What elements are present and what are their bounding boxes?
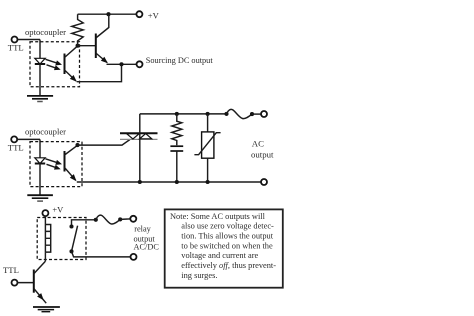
node: resistor/collector/base junction (76, 44, 80, 48)
ground (top circuit) (27, 96, 53, 102)
wire AC bottom rail (77, 181, 262, 183)
node at DC output (119, 62, 123, 66)
node bottom rail / varistor (206, 180, 210, 184)
svg-text:voltage and current are: voltage and current are (181, 251, 258, 260)
terminal relay output bottom (131, 254, 137, 260)
wire emitter to output terminal (107, 63, 137, 65)
svg-text:Sourcing DC output: Sourcing DC output (146, 56, 214, 65)
terminal TTL input (middle) (11, 136, 17, 142)
wire emitter return (output node down and left to phototransistor emitter) (77, 64, 122, 81)
pull-up resistor (72, 14, 83, 46)
node bottom rail / triac (138, 180, 142, 184)
wire gate: collector node to triac gate (78, 140, 130, 146)
light arrow 1 (top) (46, 59, 63, 67)
terminal sourcing DC output (137, 61, 143, 67)
terminal relay output top (130, 216, 136, 222)
wire to relay top terminal (120, 218, 131, 221)
node relay squiggle left (94, 218, 98, 222)
phototransistor (middle optocoupler) (65, 145, 79, 183)
triac (120, 133, 158, 139)
switch blade (72, 226, 78, 252)
switch bottom contact wire to terminal (72, 251, 131, 257)
svg-text:relay: relay (134, 224, 151, 233)
node bottom rail / snubber (175, 180, 179, 184)
node squiggle right (250, 112, 254, 116)
relay dashed box (37, 218, 86, 260)
svg-text:to be switched on when the: to be switched on when the (181, 241, 273, 250)
optocoupler dashed box (middle) (30, 142, 82, 187)
svg-text:effectively off, thus prevent-: effectively off, thus prevent- (181, 261, 276, 270)
svg-text:optocoupler: optocoupler (25, 27, 66, 37)
svg-text:ing surges.: ing surges. (181, 271, 217, 280)
switch top contact wire (72, 220, 96, 227)
svg-text:+V: +V (52, 204, 64, 214)
node top rail / snubber (175, 112, 179, 116)
svg-text:TTL: TTL (8, 43, 24, 53)
output transistor (NPN) (78, 14, 110, 65)
svg-text:tion. This allows the output: tion. This allows the output (181, 232, 273, 241)
wire capacitor to bottom rail (176, 151, 178, 182)
svg-text:Note: Some AC outputs will: Note: Some AC outputs will (170, 212, 266, 221)
node top rail / load squiggle left (224, 112, 228, 116)
ground (bottom circuit) (33, 307, 60, 312)
optocoupler dashed box (top) (30, 42, 80, 87)
svg-text:TTL: TTL (3, 265, 19, 275)
wire TTL to LED (17, 39, 40, 41)
wire triac main vertical (139, 114, 141, 182)
node relay squiggle right (118, 217, 122, 221)
driver transistor (NPN) (17, 261, 46, 303)
svg-text:+V: +V (148, 10, 160, 20)
snubber capacitor (170, 146, 183, 151)
terminal +V (relay) (42, 210, 48, 216)
terminal TTL input (bottom) (12, 280, 18, 286)
relay coil (45, 216, 50, 262)
switch bottom contact node (69, 249, 73, 253)
wire to AC top terminal (252, 113, 262, 115)
load squiggle (relay) (96, 215, 120, 224)
svg-text:AC: AC (252, 138, 264, 148)
svg-text:output: output (251, 149, 274, 159)
terminal AC output bottom (261, 179, 267, 185)
wire AC top rail (140, 113, 227, 115)
light arrow 2 (middle) (47, 164, 62, 171)
note text (170, 212, 276, 280)
load squiggle (AC) (227, 109, 253, 118)
svg-text:AC/DC: AC/DC (134, 243, 160, 252)
node top rail / varistor (206, 112, 210, 116)
LED (top optocoupler) (35, 40, 45, 96)
light arrow 2 (top) (47, 65, 62, 72)
svg-text:optocoupler: optocoupler (25, 126, 66, 136)
snubber resistor (172, 114, 182, 145)
terminal TTL input (top) (12, 37, 18, 43)
note box frame (165, 209, 283, 287)
switch top contact node (69, 224, 73, 228)
varistor (194, 114, 220, 182)
svg-text:also use zero voltage detec-: also use zero voltage detec- (181, 222, 274, 231)
wire TTL to LED (middle) (17, 138, 40, 140)
light arrow 1 (middle) (46, 159, 63, 167)
ground (middle circuit) (27, 195, 53, 201)
wire +V rail (top) (78, 13, 137, 15)
terminal +V (top) (136, 11, 142, 17)
node on +V rail (106, 12, 110, 16)
svg-text:TTL: TTL (8, 142, 24, 152)
phototransistor (top optocoupler) (65, 46, 79, 84)
node at phototransistor collector (middle) (75, 143, 79, 147)
terminal AC output top (261, 111, 267, 117)
LED (middle optocoupler) (35, 139, 45, 194)
